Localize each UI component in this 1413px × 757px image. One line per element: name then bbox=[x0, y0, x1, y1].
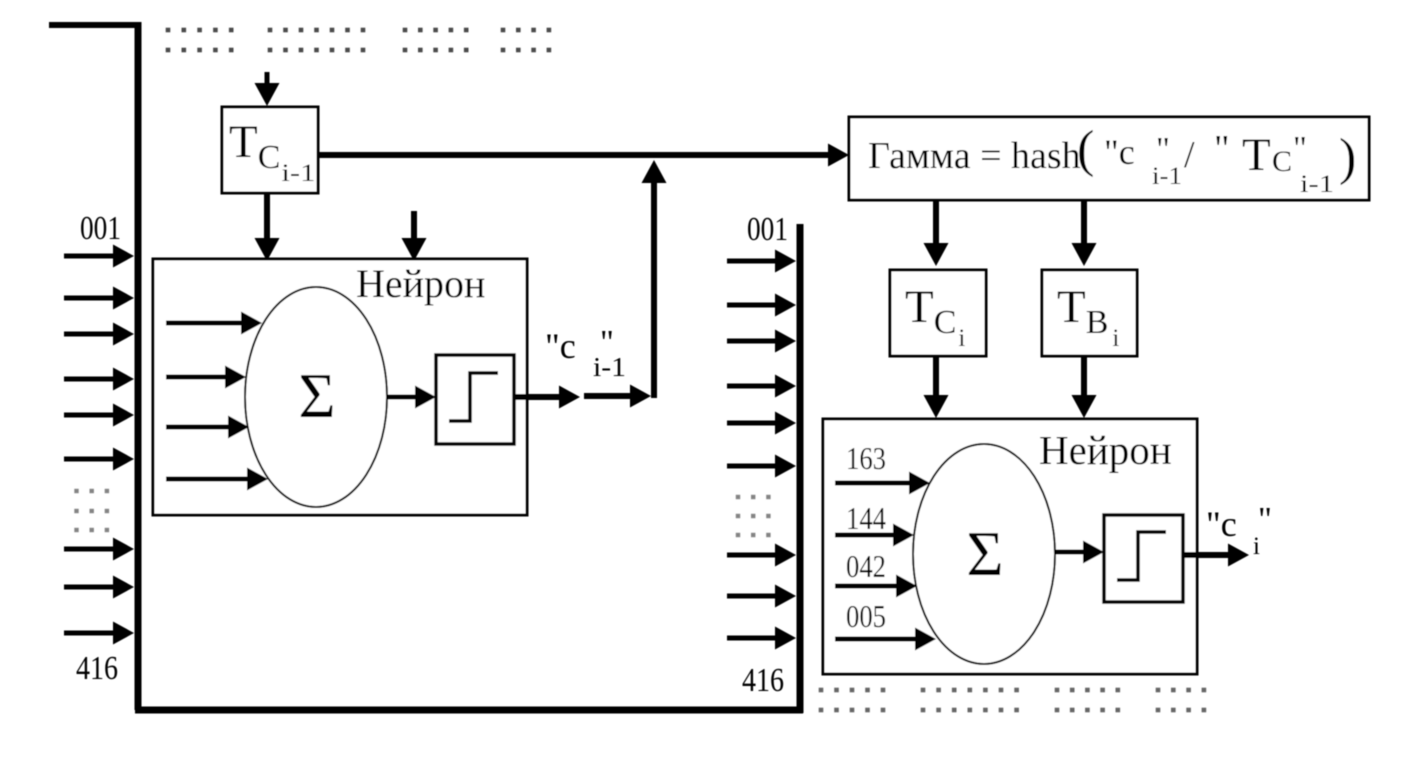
left bus ellipsis dots bbox=[74, 489, 109, 493]
left bus input arrow 7 bbox=[64, 538, 134, 561]
arrow into neuron 1 (weights) bbox=[402, 211, 427, 261]
svg-text:042: 042 bbox=[846, 548, 886, 584]
svg-text:"c: "c bbox=[1206, 504, 1237, 544]
right bus input arrow 9 bbox=[727, 627, 796, 650]
left bus input arrow 9 bbox=[64, 622, 134, 645]
top dotted rows group 2 bbox=[268, 28, 366, 33]
neuron 1 input arrow 1 bbox=[166, 312, 262, 335]
left bus input arrow 5 bbox=[64, 404, 134, 427]
svg-text:416: 416 bbox=[76, 650, 118, 687]
svg-text:"c: "c bbox=[1104, 132, 1135, 172]
right bus input arrow 4 bbox=[727, 375, 796, 398]
right bus input arrow 2 bbox=[727, 294, 796, 317]
wire: top-left horizontal stub bbox=[49, 22, 141, 28]
right bus input arrow 5 bbox=[727, 412, 796, 435]
svg-text:416: 416 bbox=[742, 662, 784, 699]
arrow summator 1 to threshold 1 bbox=[387, 386, 436, 409]
right bus input arrow 6 bbox=[727, 455, 796, 478]
top dotted rows group 1 bbox=[166, 28, 234, 33]
block hash (gamma) bbox=[849, 117, 1369, 200]
left bus input arrow 4 bbox=[64, 368, 134, 391]
threshold block 1 bbox=[436, 355, 514, 444]
up-arrow joining hash wire bbox=[642, 160, 667, 398]
neuron 1 input arrow 2 bbox=[166, 366, 246, 389]
wire: T_C_i-1 to hash block bbox=[318, 152, 836, 158]
left bus input arrow 6 bbox=[64, 448, 134, 471]
arrow summator 2 to threshold 2 bbox=[1055, 541, 1104, 564]
arrow hash to T_B_i bbox=[1072, 201, 1097, 266]
arrow T_C_i-1 down into neuron 1 bbox=[255, 193, 280, 261]
threshold block 2 bbox=[1104, 515, 1183, 602]
right bus input arrow 1 bbox=[727, 250, 796, 273]
wire: left input bus (vertical) bbox=[135, 22, 142, 710]
block T_C_i-1 bbox=[222, 107, 318, 193]
bottom dotted rows group 2 bbox=[921, 688, 1019, 693]
label "c_i-1" output of neuron 1 bbox=[545, 324, 626, 382]
left bus input arrow 2 bbox=[64, 287, 134, 310]
neuron 2 input arrow 1 bbox=[835, 472, 930, 495]
wire: bottom feedback line bbox=[135, 707, 803, 714]
right bus input arrow 8 bbox=[727, 585, 796, 608]
svg-text:i-1: i-1 bbox=[593, 352, 626, 382]
arrow threshold 2 output c_i bbox=[1183, 544, 1249, 567]
neuron 2 input arrow 2 bbox=[835, 524, 914, 547]
svg-text:": " bbox=[1258, 501, 1272, 538]
right bus input arrow 7 bbox=[727, 544, 796, 567]
bottom dotted rows group 4 bbox=[1156, 688, 1207, 693]
svg-text:"c: "c bbox=[545, 326, 576, 366]
svg-text:): ) bbox=[1339, 129, 1356, 186]
arrow T_B_i to neuron 2 bbox=[1072, 356, 1097, 418]
block T_B_i bbox=[1042, 270, 1137, 356]
svg-text:i-1: i-1 bbox=[1152, 163, 1182, 190]
arrow hash to T_C_i bbox=[924, 201, 949, 266]
left bus input arrow 8 bbox=[64, 576, 134, 599]
top dotted rows group 4 bbox=[501, 28, 551, 33]
svg-text:T: T bbox=[1242, 129, 1271, 181]
svg-text:i-1: i-1 bbox=[1300, 171, 1334, 198]
block neuron 1 bbox=[153, 259, 527, 515]
svg-text:005: 005 bbox=[846, 598, 886, 634]
neuron 2 input arrow 4 bbox=[835, 628, 936, 651]
svg-text:Σ: Σ bbox=[966, 518, 1003, 589]
svg-text:001: 001 bbox=[747, 211, 788, 248]
block T_C_i bbox=[890, 270, 986, 356]
svg-text:C: C bbox=[1272, 145, 1292, 178]
right bus ellipsis dots bbox=[736, 495, 771, 499]
svg-text:Σ: Σ bbox=[298, 360, 335, 431]
svg-text:144: 144 bbox=[846, 500, 886, 536]
wire: right input bus (vertical) bbox=[797, 224, 804, 713]
arrow into block T_C_i-1 bbox=[255, 72, 280, 106]
svg-text:Гамма = hash: Гамма = hash bbox=[868, 135, 1081, 177]
neuron 2 input arrow 3 bbox=[835, 575, 917, 598]
arrow T_C_i to neuron 2 bbox=[924, 356, 949, 418]
svg-text:Нейрон: Нейрон bbox=[356, 261, 485, 306]
bottom dotted rows group 1 bbox=[819, 688, 886, 693]
step glyph 1 bbox=[449, 373, 498, 421]
svg-text:(: ( bbox=[1077, 121, 1094, 178]
svg-text:": " bbox=[1293, 130, 1307, 167]
label gamma = hash(...) bbox=[868, 121, 1356, 198]
svg-text:Нейрон: Нейрон bbox=[1039, 427, 1172, 473]
ellipse summator 2 bbox=[913, 444, 1055, 664]
block neuron 2 bbox=[823, 419, 1197, 674]
left bus input arrow 1 bbox=[64, 245, 134, 268]
top dotted rows group 3 bbox=[403, 28, 469, 33]
arrow threshold 1 output bbox=[514, 386, 580, 409]
left bus input arrow 3 bbox=[64, 323, 134, 346]
arrow c_i-1 to feedback node bbox=[584, 385, 651, 408]
neuron 1 input arrow 3 bbox=[166, 416, 249, 439]
ellipse summator 1 bbox=[245, 287, 387, 507]
step glyph 2 bbox=[1117, 532, 1166, 580]
svg-text:": " bbox=[1214, 128, 1230, 170]
arrowhead into hash block bbox=[828, 144, 849, 167]
neuron 1 input arrow 4 bbox=[166, 468, 268, 491]
label "c_i" output of neuron 2 bbox=[1206, 501, 1272, 560]
bottom dotted rows group 3 bbox=[1055, 688, 1120, 693]
svg-text:001: 001 bbox=[80, 210, 121, 247]
svg-text:163: 163 bbox=[846, 440, 886, 476]
right bus input arrow 3 bbox=[727, 330, 796, 353]
svg-text:/: / bbox=[1184, 134, 1195, 176]
